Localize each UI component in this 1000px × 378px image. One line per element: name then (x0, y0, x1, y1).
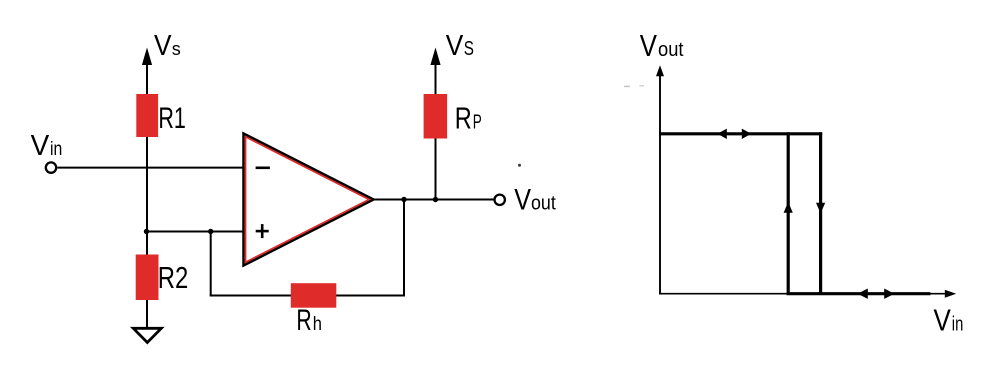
op-amp U1 inner red outline (246, 137, 370, 262)
resistor R2 (136, 255, 159, 301)
graph x-axis arrow (945, 290, 956, 298)
wire: feedback up to output node (403, 200, 405, 297)
supply arrow Vs (142, 48, 152, 66)
resistor Rh (291, 283, 337, 308)
svg-text:V: V (446, 30, 464, 62)
hysteresis right vertical (819, 132, 822, 294)
junction dot output/feedback (401, 197, 406, 202)
supply arrow VS (430, 48, 440, 66)
op-amp U1 body (244, 134, 374, 266)
graph x-axis (659, 293, 947, 295)
svg-text:out: out (531, 193, 556, 215)
wire: node A to non-inverting input (y=231.5) (147, 231, 244, 233)
svg-text:P: P (473, 111, 482, 133)
arrow up on left vertical (784, 202, 793, 213)
resistor R1 (136, 94, 158, 137)
svg-text:S: S (464, 38, 474, 60)
wire: output (373, 199, 495, 201)
graph y-axis arrow (656, 65, 664, 76)
graph y-axis (659, 74, 661, 294)
svg-text:in: in (952, 313, 964, 335)
svg-text:V: V (514, 184, 531, 217)
svg-text:V: V (640, 28, 657, 63)
hysteresis left vertical (787, 132, 790, 294)
svg-text:R: R (296, 304, 311, 337)
svg-text:out: out (658, 39, 684, 61)
wire: RP branch (x=435.5) (435, 62, 437, 200)
smudge marks (624, 86, 630, 88)
svg-text:R2: R2 (158, 261, 189, 295)
svg-text:R: R (455, 100, 472, 135)
hysteresis top segment (659, 132, 822, 135)
arrow left on bottom segment (858, 289, 868, 299)
resistor RP (424, 94, 448, 139)
svg-text:V: V (31, 130, 50, 162)
arrow right on bottom segment (884, 289, 894, 299)
svg-text:R1: R1 (158, 102, 186, 135)
arrow left on top segment (717, 129, 726, 139)
svg-text:s: s (172, 39, 181, 59)
ground (133, 328, 161, 342)
output terminal circle (495, 195, 505, 205)
wire: Vin to inverting input (58, 167, 244, 169)
svg-text:V: V (934, 303, 952, 337)
hysteresis bottom segment (787, 292, 931, 295)
svg-text:in: in (50, 139, 62, 160)
arrow down on right vertical (816, 203, 825, 214)
arrow right on top segment (742, 129, 751, 139)
wire: left supply rail through R1 and R2 (x=147) (146, 62, 148, 328)
svg-text:h: h (313, 313, 322, 335)
svg-text:V: V (154, 30, 172, 62)
junction dot node A (144, 229, 149, 234)
wire: feedback down from node B (210, 232, 212, 296)
wire: feedback bottom horizontal (210, 295, 404, 297)
stray speck (518, 164, 521, 167)
input terminal circle (46, 162, 56, 172)
junction dot output/RP (433, 197, 438, 202)
op-amp minus sign (256, 167, 270, 170)
junction dot node B (208, 229, 213, 234)
op-amp plus sign (256, 230, 269, 233)
